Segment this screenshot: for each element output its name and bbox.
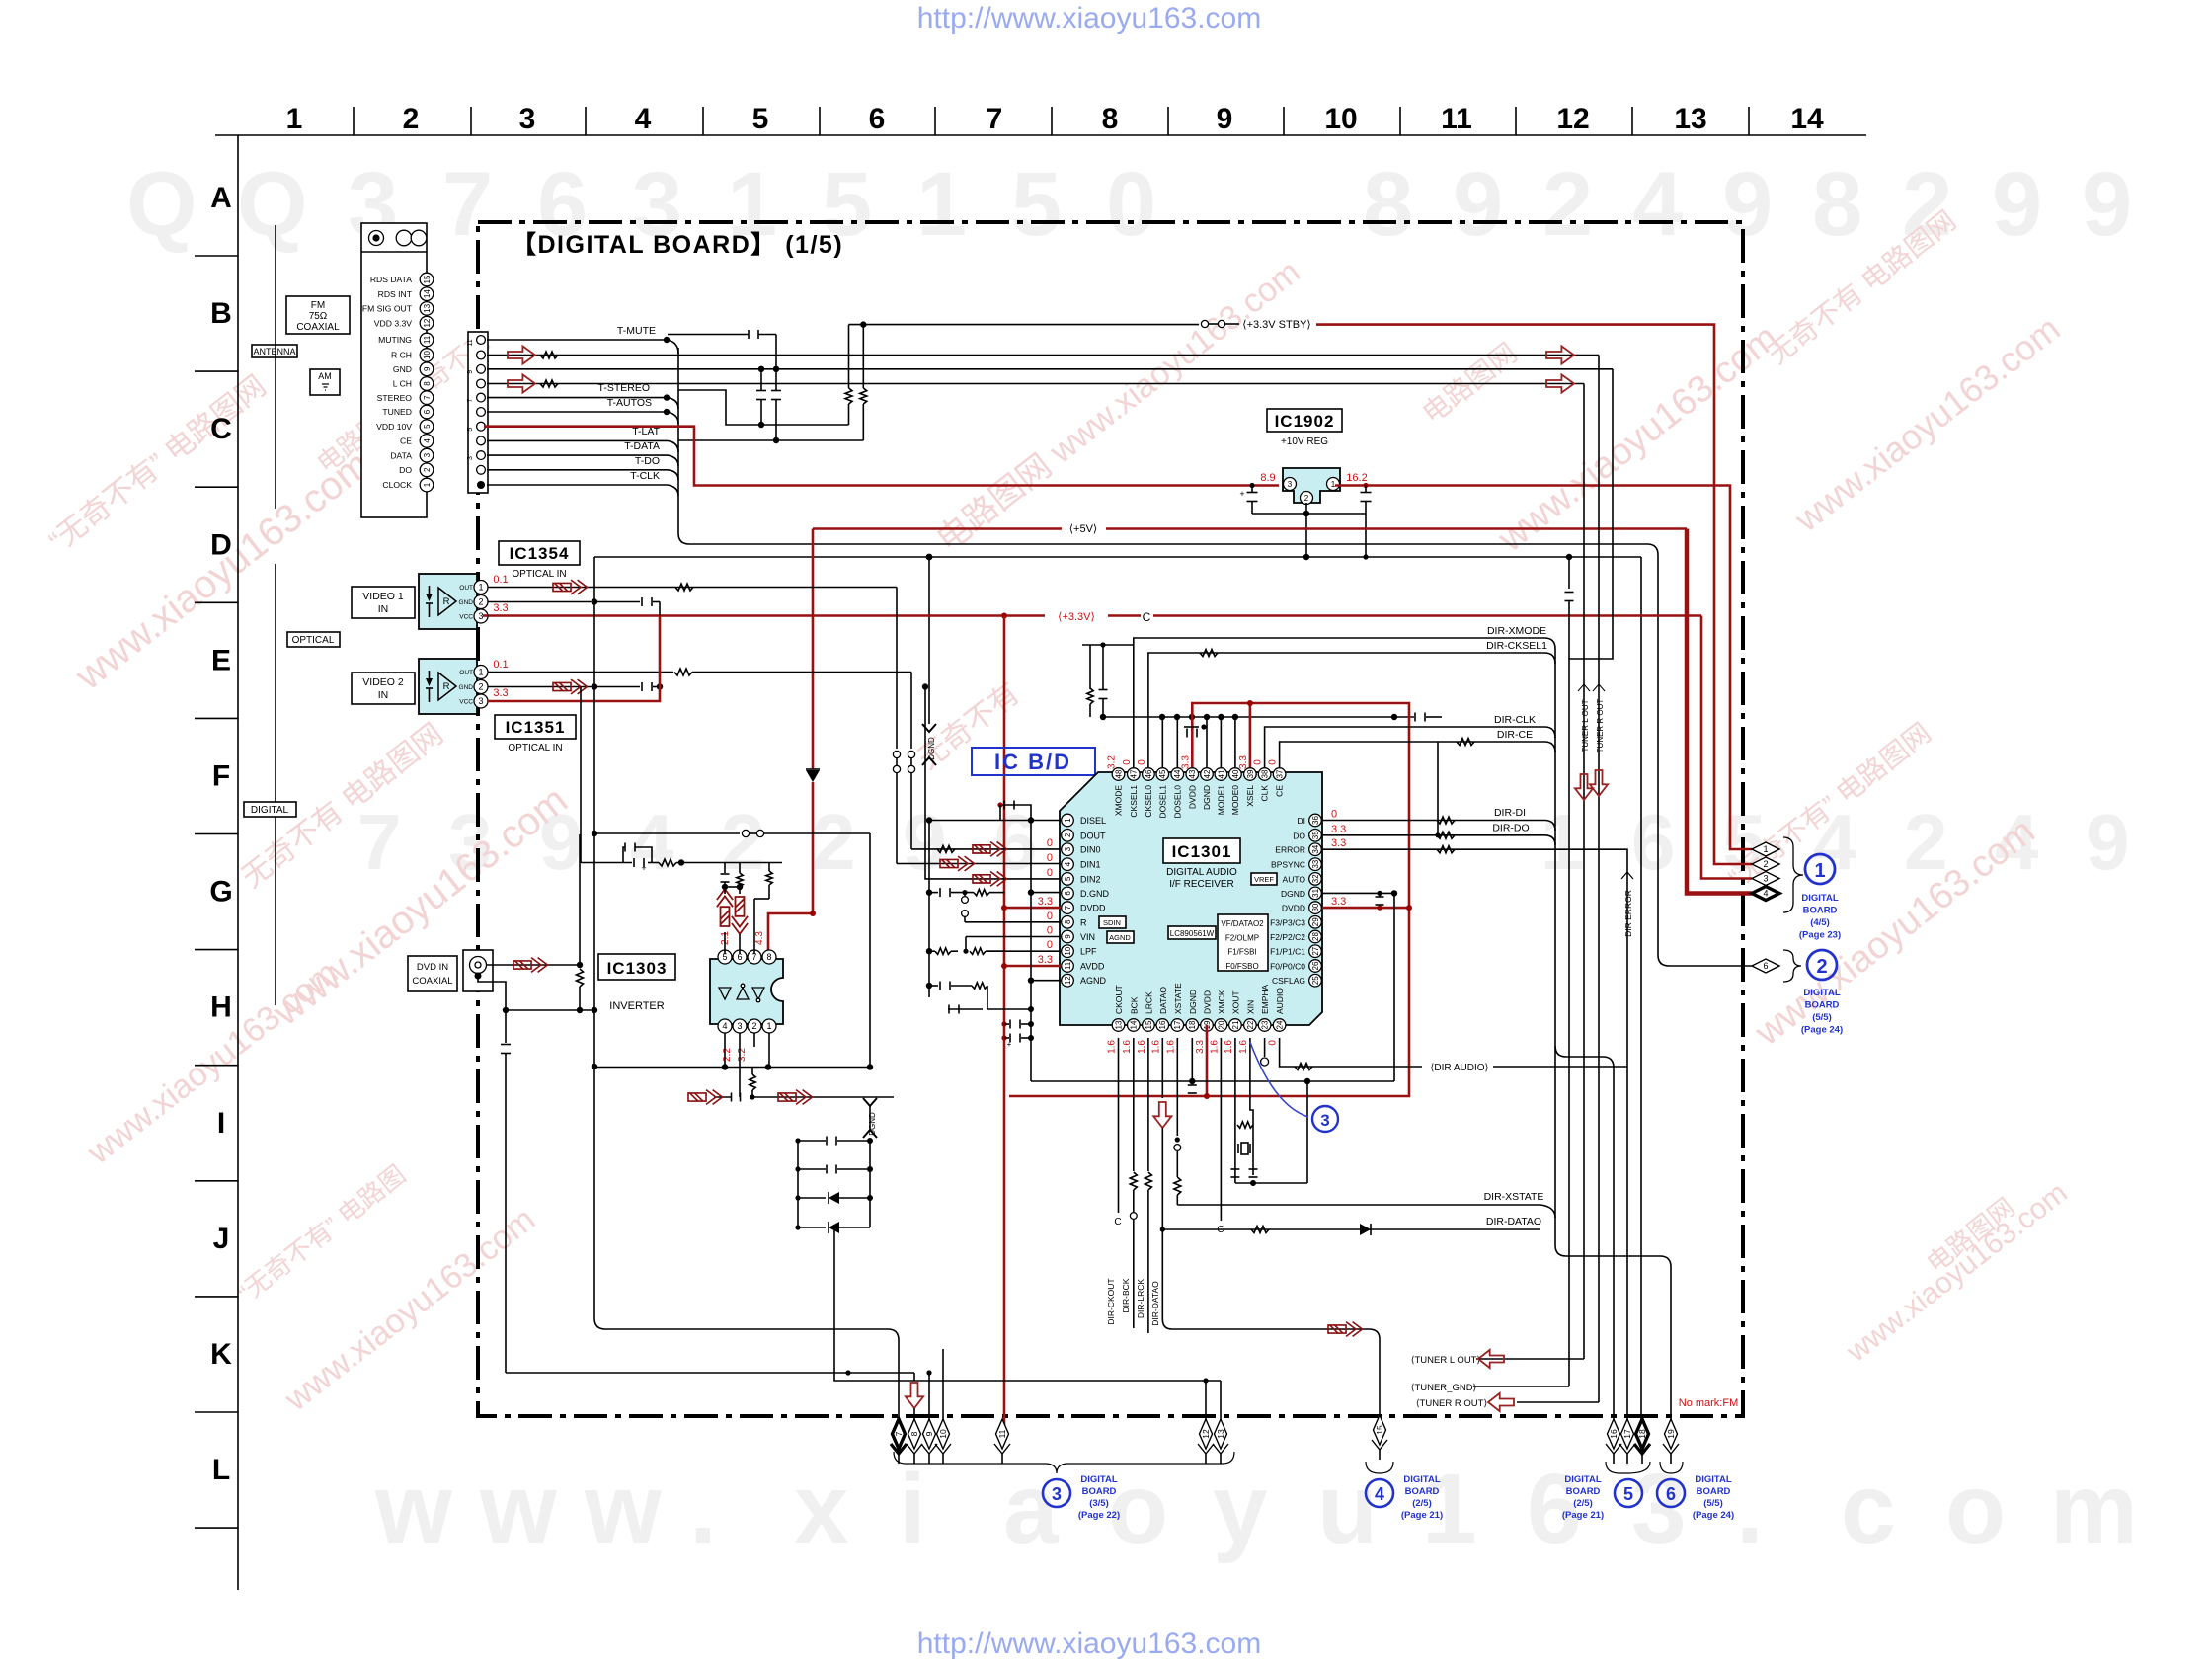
- junction bus x1589: [1566, 554, 1572, 560]
- svg-text:CKOUT: CKOUT: [1114, 985, 1124, 1014]
- wire T-STEREO: [487, 397, 667, 399]
- wire VIN pin9: [966, 936, 1061, 938]
- svg-text:DOSEL0: DOSEL0: [1172, 785, 1182, 819]
- svg-text:4: 4: [423, 438, 432, 443]
- svg-text:3: 3: [1763, 874, 1768, 884]
- svg-text:DIGITAL: DIGITAL: [251, 805, 289, 816]
- resistor coax to gnd: [577, 969, 584, 987]
- net label TUNER L OUT vertical: [1578, 684, 1590, 691]
- wire XMCK pin20 down: [1220, 1038, 1222, 1221]
- wire to diamond 8 with red arrow: [913, 1373, 915, 1381]
- SDIN label: [1099, 916, 1126, 928]
- svg-text:18: 18: [1637, 1429, 1647, 1439]
- wire +3.3V red main: [483, 614, 1045, 617]
- svg-text:F0/P0/C0: F0/P0/C0: [1270, 962, 1305, 972]
- IC1902 pin 3: [1284, 478, 1297, 491]
- IC1351 label: [495, 715, 576, 739]
- svg-text:11: 11: [997, 1429, 1007, 1438]
- wire gnd jog x1633: [1569, 369, 1613, 1386]
- svg-text:5: 5: [1011, 154, 1062, 255]
- wire DO pin35 to DIR-DO: [1322, 834, 1544, 836]
- wire video2 VCC red: [488, 616, 660, 702]
- svg-text:(Page 21): (Page 21): [1401, 1510, 1443, 1521]
- svg-text:7: 7: [442, 154, 493, 255]
- svg-text:7: 7: [357, 798, 402, 886]
- svg-text:13: 13: [1216, 1429, 1225, 1439]
- svg-text:5: 5: [467, 428, 474, 432]
- cap under pin18: [1191, 1081, 1193, 1084]
- svg-text:GND: GND: [459, 684, 474, 691]
- wires top pins to DGND bus: [1161, 717, 1163, 767]
- IC1902 output cap: [1363, 483, 1368, 488]
- svg-text:1.6: 1.6: [1209, 1040, 1220, 1054]
- signal arrow R CH: [508, 346, 535, 363]
- pin1 to gnd: [768, 1033, 770, 1068]
- wire EMPHA pin23 testpoint: [1264, 1038, 1266, 1057]
- svg-text:6: 6: [1064, 891, 1072, 896]
- svg-text:3: 3: [478, 696, 483, 706]
- wire XSTATE pin17 down: [1176, 1038, 1178, 1136]
- DIR bundle jog to diamond 16: [1555, 1046, 1566, 1057]
- svg-text:31: 31: [1311, 888, 1320, 897]
- svg-text:COAXIAL: COAXIAL: [296, 322, 340, 333]
- svg-text:DVDD: DVDD: [1187, 785, 1197, 809]
- svg-text:11: 11: [423, 335, 432, 344]
- svg-text:5: 5: [752, 103, 769, 135]
- svg-text:m: m: [2050, 1454, 2138, 1564]
- wire to diamond 12: [1205, 1380, 1207, 1382]
- svg-text:R: R: [443, 596, 450, 607]
- IC1301 top pin numbers 48..37: [1112, 768, 1125, 781]
- AM box with ground: [310, 369, 340, 395]
- svg-text:17: 17: [1622, 1429, 1632, 1439]
- wire GND horizontal: [487, 368, 1613, 370]
- red DVDD net loop top: [1009, 703, 1409, 1096]
- svg-text:1: 1: [766, 1021, 771, 1031]
- svg-text:2: 2: [751, 1021, 756, 1031]
- svg-text:OUT: OUT: [459, 585, 473, 592]
- svg-text:8: 8: [423, 381, 432, 386]
- svg-text:3: 3: [1064, 846, 1072, 851]
- IC1354 pin 3: [474, 609, 488, 623]
- svg-text:0: 0: [1122, 759, 1133, 765]
- IC1303 pin 2: [748, 1019, 761, 1033]
- black bus below IC y1095: [1031, 1080, 1394, 1082]
- svg-text:2: 2: [403, 103, 420, 135]
- circled 5 board: [1615, 1479, 1642, 1507]
- decoupling row DGND: [929, 892, 938, 894]
- svg-text:DI: DI: [1298, 816, 1306, 826]
- svg-text:w: w: [584, 1454, 662, 1564]
- svg-text:RDS DATA: RDS DATA: [370, 275, 412, 284]
- diode on 5V drop: [806, 770, 820, 782]
- svg-text:3: 3: [519, 103, 536, 135]
- svg-text:CSFLAG: CSFLAG: [1272, 976, 1305, 986]
- svg-text:B: B: [210, 297, 232, 330]
- VIDEO 2 IN box: [352, 673, 415, 704]
- svg-text:DGND: DGND: [927, 737, 936, 760]
- svg-text:DGND: DGND: [1202, 785, 1212, 810]
- svg-text:10: 10: [423, 351, 432, 359]
- top ruler ticks: [353, 107, 355, 135]
- FM 75ohm COAXIAL box: [286, 296, 350, 334]
- svg-text:38: 38: [1260, 769, 1269, 778]
- svg-text:0: 0: [1047, 939, 1053, 951]
- svg-text:1.6: 1.6: [1122, 1040, 1133, 1054]
- brace group 3: [894, 1452, 1234, 1473]
- resistor series: [659, 859, 676, 866]
- svg-text:IC1301: IC1301: [1172, 842, 1232, 861]
- svg-text:o: o: [1108, 1454, 1168, 1564]
- IC1351 pin 2: [474, 680, 488, 694]
- arrow up pin5: [717, 889, 733, 926]
- wire to diamond 13: [1220, 1381, 1222, 1426]
- svg-text:BOARD: BOARD: [1082, 1486, 1117, 1497]
- svg-text:8.9: 8.9: [1260, 472, 1275, 484]
- wire x588 gray vertical: [580, 687, 582, 863]
- svg-text:DOSEL1: DOSEL1: [1157, 785, 1167, 819]
- wire T-AUTOS: [487, 411, 667, 413]
- svg-text:3: 3: [737, 1021, 742, 1031]
- svg-text:CKSEL1: CKSEL1: [1129, 785, 1139, 818]
- svg-text:3.3: 3.3: [493, 602, 508, 614]
- gnd bus segment H row: [506, 1009, 594, 1011]
- wire video1 OUT: [488, 587, 897, 589]
- svg-text:3.3: 3.3: [1180, 755, 1191, 769]
- cap to pin5 net: [724, 863, 726, 874]
- svg-text:VF/DATAO2: VF/DATAO2: [1221, 919, 1264, 928]
- svg-text:DIGITAL: DIGITAL: [1801, 893, 1838, 904]
- svg-text:11: 11: [1064, 961, 1072, 970]
- svg-text:VREF: VREF: [1254, 875, 1274, 884]
- svg-text:VCC: VCC: [459, 614, 473, 621]
- svg-text:(Page 21): (Page 21): [1562, 1510, 1604, 1521]
- svg-text:8: 8: [1812, 154, 1862, 255]
- svg-text:CLOCK: CLOCK: [382, 480, 412, 490]
- wire x602 to diamond 7 thick: [593, 1067, 595, 1318]
- svg-text:AM: AM: [318, 371, 332, 381]
- wire coax shield to gnd bus: [478, 976, 506, 1010]
- svg-text:F2/P2/C2: F2/P2/C2: [1270, 932, 1305, 942]
- svg-text:10: 10: [1064, 946, 1072, 955]
- arrow L CH right: [1546, 374, 1574, 392]
- corner network top left of IC: [1082, 644, 1134, 646]
- arrow DIN0: [973, 842, 1006, 857]
- brace group 5: [1606, 1462, 1650, 1473]
- svg-text:FM SIG OUT: FM SIG OUT: [362, 304, 413, 314]
- svg-text:y: y: [1213, 1454, 1268, 1564]
- svg-text:0: 0: [1268, 759, 1279, 765]
- svg-text:4: 4: [1375, 1484, 1384, 1504]
- arrow down tuner R: [1590, 770, 1608, 796]
- svg-text:DGND: DGND: [1281, 889, 1305, 899]
- svg-text:30: 30: [1311, 903, 1320, 911]
- DIR bundle vertical: [1554, 649, 1556, 1245]
- svg-text:DIR-DI: DIR-DI: [1494, 807, 1526, 819]
- svg-text:DVDD: DVDD: [1080, 904, 1106, 913]
- svg-text:1: 1: [916, 154, 967, 255]
- brace group 4: [1366, 1462, 1393, 1473]
- svg-text:⟨DIR AUDIO⟩: ⟨DIR AUDIO⟩: [1431, 1063, 1489, 1073]
- svg-text:2.2: 2.2: [722, 1048, 733, 1062]
- arrow DIN1: [940, 856, 974, 871]
- wire +5V red: [813, 527, 1062, 530]
- diamond 11: [996, 1419, 1009, 1449]
- svg-text:4: 4: [1064, 861, 1072, 866]
- svg-text:GND: GND: [393, 364, 412, 374]
- svg-text:T-AUTOS: T-AUTOS: [607, 397, 652, 409]
- svg-text:.: .: [689, 1454, 717, 1564]
- svg-text:26: 26: [1311, 961, 1320, 970]
- wire bus to diamond 15 thick: [1172, 1328, 1369, 1330]
- svg-text:(4/5): (4/5): [1810, 917, 1830, 928]
- wire T-DATA: [487, 454, 668, 456]
- svg-text:28: 28: [1311, 932, 1320, 941]
- IC1303 pin 8: [762, 950, 776, 964]
- svg-text:37: 37: [1275, 769, 1284, 778]
- svg-text:2: 2: [1542, 154, 1593, 255]
- svg-text:Q: Q: [237, 154, 308, 255]
- svg-text:T-DO: T-DO: [635, 455, 660, 467]
- svg-text:TUNER L OUT: TUNER L OUT: [1581, 699, 1590, 752]
- wire DGND pin6 thick: [1031, 892, 1061, 894]
- svg-text:1: 1: [478, 583, 483, 593]
- svg-text:BOARD: BOARD: [1697, 1486, 1731, 1497]
- svg-text:⟨+3.3V⟩: ⟨+3.3V⟩: [1058, 611, 1095, 623]
- diamond 15: [1374, 1415, 1386, 1445]
- wire LRCK pin15 down: [1147, 1038, 1149, 1171]
- svg-text:16: 16: [1158, 1020, 1167, 1029]
- svg-text:VDD 10V: VDD 10V: [376, 422, 412, 432]
- svg-text:7: 7: [423, 395, 432, 400]
- svg-text:DIR-DATAO: DIR-DATAO: [1150, 1281, 1160, 1326]
- svg-text:I/F RECEIVER: I/F RECEIVER: [1169, 879, 1234, 890]
- diamonds 1-4 right: [1752, 842, 1779, 856]
- svg-text:DIGITAL: DIGITAL: [1803, 988, 1840, 998]
- svg-text:3.3: 3.3: [1038, 954, 1053, 966]
- resistor ERROR: [1437, 846, 1455, 853]
- jumper on DIN0 feed: [908, 751, 914, 757]
- junction caps on GND line: [758, 366, 764, 372]
- svg-text:K: K: [210, 1338, 232, 1371]
- wire red diode to inverter pin8: [768, 782, 813, 954]
- svg-text:25: 25: [1311, 976, 1320, 985]
- LC890561W label: [1168, 926, 1216, 939]
- svg-text:1.6: 1.6: [1224, 1040, 1234, 1054]
- svg-text:VCC: VCC: [459, 699, 473, 706]
- svg-text:14: 14: [1790, 103, 1824, 135]
- svg-text:3.3: 3.3: [1238, 755, 1249, 769]
- tuner bus vertical to diamond 6: [1657, 555, 1659, 955]
- tuner connector coax circles: [369, 231, 384, 246]
- svg-text:LC890561W: LC890561W: [1170, 929, 1215, 938]
- svg-text:4: 4: [722, 1021, 727, 1031]
- tuner connector CN block: [361, 223, 427, 517]
- svg-text:1.6: 1.6: [1238, 1040, 1249, 1054]
- svg-text:1: 1: [286, 103, 303, 135]
- svg-text:DIN0: DIN0: [1080, 845, 1101, 855]
- svg-text:6: 6: [1631, 798, 1676, 886]
- wire DGND arrow x881: [863, 1098, 877, 1106]
- svg-text:22: 22: [1246, 1020, 1255, 1029]
- wire x512 to diamond 8 and 12 row: [506, 1372, 914, 1374]
- svg-text:(Page 23): (Page 23): [1799, 930, 1841, 941]
- diamond 7: [893, 1419, 906, 1449]
- svg-text:1: 1: [1763, 844, 1768, 854]
- svg-text:DO: DO: [1293, 831, 1305, 840]
- circled 1 board: [1805, 854, 1835, 884]
- board-edge connector block: [468, 332, 488, 493]
- svg-text:(2/5): (2/5): [1412, 1498, 1432, 1509]
- DVD IN COAXIAL box: [408, 956, 457, 991]
- svg-text:F2/OLMP: F2/OLMP: [1225, 933, 1259, 942]
- wire AUDIO pin24 to DIR AUDIO: [1280, 1038, 1422, 1067]
- crystal symbol: [1237, 1144, 1239, 1153]
- svg-text:a: a: [1003, 1454, 1060, 1564]
- wire DGND pin31 thick to x1412: [1322, 893, 1394, 1081]
- wire video2 OUT: [488, 672, 673, 673]
- svg-text:AVDD: AVDD: [1080, 962, 1105, 972]
- svg-text:0.1: 0.1: [493, 659, 508, 671]
- red DVDD pin30 branch: [1322, 907, 1409, 910]
- svg-text:C: C: [1143, 610, 1151, 624]
- svg-text:+: +: [641, 863, 646, 873]
- cap row y1022: [948, 1008, 983, 1010]
- resistor video1 out: [675, 584, 693, 591]
- svg-text:4: 4: [1632, 154, 1683, 255]
- IC1902 pin 2: [1301, 492, 1313, 505]
- resistor on R CH: [540, 352, 558, 358]
- wire pin46 up to DIR-CKSEL1: [1148, 653, 1544, 767]
- wire pin47 up to DIR-XMODE: [1134, 638, 1544, 767]
- svg-text:XIN: XIN: [1245, 1000, 1255, 1014]
- svg-text:BCK: BCK: [1129, 996, 1139, 1014]
- wire DIR bundle bottom to diamond 19: [1566, 1255, 1660, 1257]
- wire DGND pin18 down: [1191, 1038, 1193, 1081]
- IC1303 pin 4: [718, 1019, 732, 1033]
- AGND label: [1107, 931, 1134, 943]
- diamond 19: [1665, 1419, 1678, 1449]
- svg-text:IC1303: IC1303: [607, 959, 668, 978]
- left ruler ticks: [195, 255, 238, 257]
- svg-text:AUDIO: AUDIO: [1275, 988, 1285, 1014]
- svg-text:R CH: R CH: [391, 351, 412, 360]
- svg-text:LRCK: LRCK: [1144, 991, 1153, 1014]
- net label TUNER_GND bottom: [1473, 1386, 1569, 1387]
- svg-text:MODE1: MODE1: [1216, 785, 1225, 816]
- IC1303 gate triangles: [719, 988, 764, 999]
- IC1303 label: [598, 954, 675, 980]
- svg-text:43: 43: [1188, 769, 1197, 778]
- arrow right2 under IC1303: [778, 1090, 812, 1105]
- callout curve to 3: [1250, 1042, 1308, 1117]
- svg-text:GND: GND: [459, 599, 474, 606]
- svg-text:IN: IN: [378, 689, 389, 701]
- tuner bus horizontal to connector 6: [689, 543, 1647, 545]
- svg-text:7: 7: [894, 1431, 904, 1436]
- arrow R CH right: [1546, 346, 1574, 363]
- svg-text:7: 7: [987, 103, 1003, 135]
- svg-text:http://www.xiaoyu163.com: http://www.xiaoyu163.com: [917, 2, 1262, 35]
- svg-text:DIR-DO: DIR-DO: [1492, 823, 1529, 834]
- svg-text:⟨TUNER_GND⟩: ⟨TUNER_GND⟩: [1411, 1383, 1477, 1393]
- svg-text:5: 5: [1623, 1484, 1633, 1504]
- wire BCK pin14 down: [1133, 1038, 1135, 1171]
- circled 6 board: [1657, 1479, 1685, 1507]
- res to pin7: [768, 863, 770, 872]
- pin2 down: [753, 1033, 755, 1047]
- svg-text:T-MUTE: T-MUTE: [617, 325, 656, 337]
- svg-text:DIR-CKSEL1: DIR-CKSEL1: [1486, 640, 1547, 652]
- svg-text:R: R: [1080, 917, 1087, 927]
- VIDEO 1 IN box: [352, 587, 415, 618]
- svg-text:DIN2: DIN2: [1080, 874, 1101, 884]
- svg-text:9: 9: [1453, 154, 1503, 255]
- svg-text:1: 1: [1064, 818, 1072, 823]
- svg-text:TUNER R OUT: TUNER R OUT: [1596, 699, 1605, 753]
- wire switch jumper row y845: [594, 832, 740, 834]
- diode on DIR-DATAO: [1360, 1224, 1371, 1235]
- jumper circles to SDIN: [962, 890, 967, 895]
- svg-text:CE: CE: [400, 436, 412, 446]
- svg-text:10: 10: [1324, 103, 1357, 135]
- svg-text:DIN1: DIN1: [1080, 860, 1101, 870]
- svg-text:STEREO: STEREO: [377, 393, 413, 403]
- pin3 cap branch: [739, 1033, 741, 1097]
- svg-text:3: 3: [467, 456, 474, 460]
- svg-text:3: 3: [1631, 1454, 1687, 1564]
- svg-text:2: 2: [478, 682, 483, 692]
- svg-text:8: 8: [1064, 919, 1072, 924]
- brace group 1: [1783, 837, 1803, 912]
- wire pin37 CE up to DIR-CE: [1280, 742, 1544, 767]
- svg-text:27: 27: [1311, 946, 1320, 955]
- svg-text:2: 2: [478, 597, 483, 607]
- svg-text:12: 12: [423, 318, 432, 327]
- wire to diamond 10: [942, 1349, 944, 1426]
- ANTENNA label: [252, 345, 297, 357]
- svg-text:0: 0: [1047, 837, 1053, 849]
- electrolytic cap series: [633, 858, 635, 867]
- svg-text:DIR-BCK: DIR-BCK: [1121, 1278, 1131, 1312]
- net label TUNER L OUT bottom: [1476, 1358, 1584, 1360]
- wire +5V red to diamond 4 thick: [1687, 529, 1752, 894]
- IC1303 pin 3: [733, 1019, 747, 1033]
- svg-text:1: 1: [1422, 1454, 1477, 1564]
- resistor on CE: [1457, 739, 1474, 746]
- svg-text:F0/FSBO: F0/FSBO: [1225, 962, 1258, 971]
- resistor DO: [1437, 831, 1455, 838]
- IC B/D label: [972, 748, 1095, 775]
- svg-text:36: 36: [1311, 816, 1320, 825]
- svg-text:DIR-LRCK: DIR-LRCK: [1136, 1279, 1145, 1318]
- svg-text:3: 3: [1052, 1484, 1062, 1504]
- svg-text:DIR-XMODE: DIR-XMODE: [1487, 625, 1546, 637]
- wire +3.3V STBY red to diamond 2: [1316, 325, 1752, 864]
- IC1301 right pin numbers 36..25: [1309, 814, 1322, 827]
- capacitor on T-MUTE coupling: [668, 334, 749, 336]
- svg-text:CKSEL0: CKSEL0: [1144, 785, 1153, 818]
- svg-text:16.2: 16.2: [1346, 472, 1367, 484]
- svg-text:11: 11: [467, 339, 474, 346]
- IC1303 bottom gnd bus: [593, 1067, 870, 1069]
- svg-text:3.3: 3.3: [1195, 1040, 1206, 1054]
- circled 2 board: [1807, 950, 1837, 980]
- svg-text:3: 3: [478, 611, 483, 621]
- diamond 16: [1608, 1419, 1620, 1449]
- svg-text:6: 6: [1527, 1454, 1582, 1564]
- DIGITAL label: [244, 802, 296, 817]
